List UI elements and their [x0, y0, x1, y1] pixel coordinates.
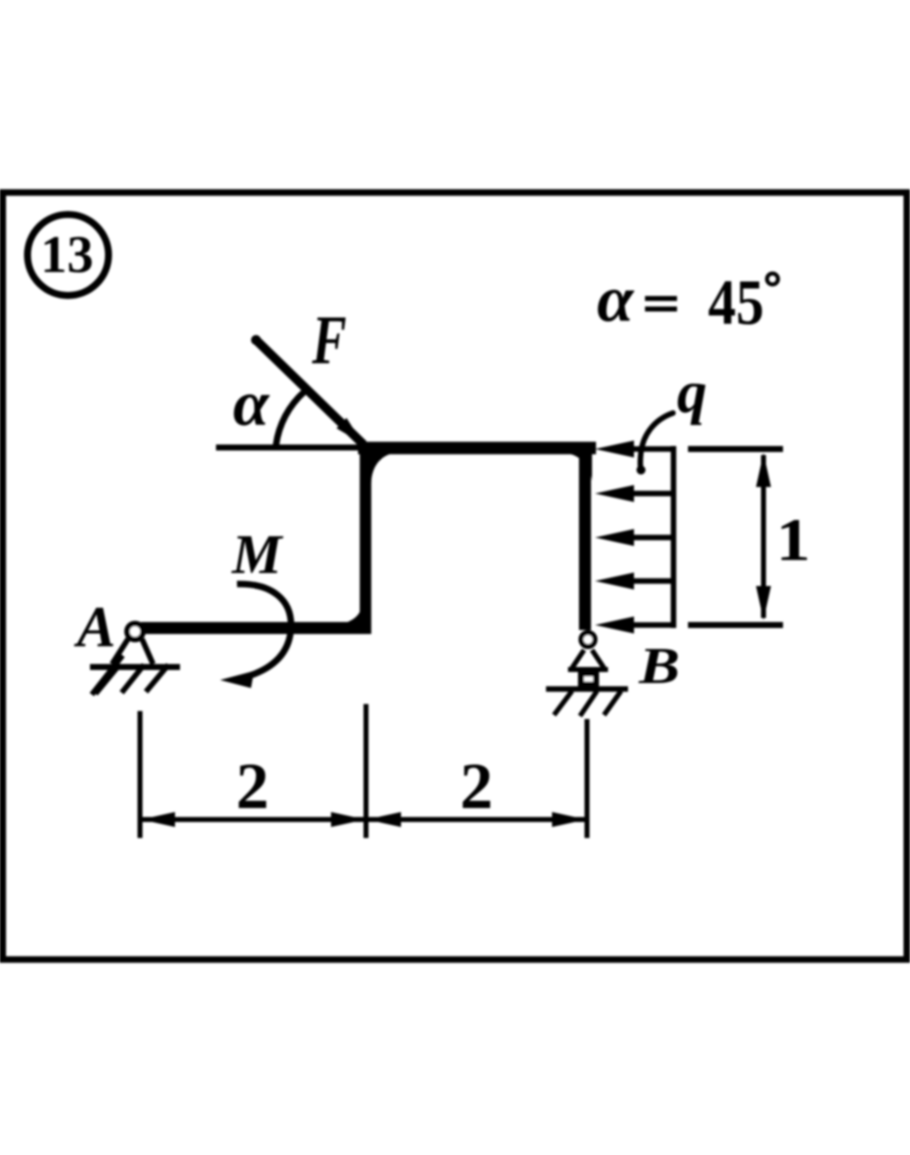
- extension line at middle: [364, 704, 369, 838]
- fillet top-right corner: [562, 452, 592, 481]
- support A pin circle: [127, 624, 143, 640]
- svg-text:13: 13: [41, 226, 94, 284]
- header alpha = 45 deg: [597, 263, 778, 339]
- left vertical beam: [360, 442, 372, 634]
- label alpha (angle): [233, 368, 270, 440]
- svg-text:1: 1: [776, 506, 810, 573]
- support B triangle: [568, 650, 608, 670]
- distributed load right boundary line: [671, 446, 677, 628]
- label F: [311, 302, 346, 379]
- dim arrowhead left: [141, 812, 175, 827]
- top beam: [358, 442, 596, 455]
- svg-text:2: 2: [236, 750, 269, 823]
- dim arrowhead mid-right: [331, 812, 365, 827]
- load arrow 1: [595, 441, 674, 458]
- support A hatching: [92, 655, 169, 694]
- label B: [638, 637, 680, 695]
- problem number circle 13: [28, 215, 109, 296]
- svg-text:2: 2: [460, 750, 493, 823]
- load arrow 3: [595, 529, 674, 546]
- svg-text:q: q: [677, 359, 707, 425]
- fillet bottom corner: [341, 606, 362, 624]
- load arrow 2: [595, 485, 674, 502]
- label 2 right: [460, 750, 493, 823]
- dimension 1 bottom extension line: [688, 622, 783, 628]
- support B roller: [581, 674, 596, 685]
- right vertical member: [579, 443, 591, 630]
- label A: [74, 594, 116, 659]
- label M: [231, 524, 284, 586]
- force F line: [251, 335, 364, 445]
- moment M arc: [237, 584, 291, 679]
- dimension 1 top extension line: [688, 446, 783, 452]
- svg-text:45: 45: [708, 267, 764, 339]
- support B ground line: [546, 686, 628, 692]
- load arrow 4: [595, 573, 674, 590]
- svg-text:B: B: [638, 637, 680, 695]
- svg-text:M: M: [231, 524, 284, 586]
- border frame: [3, 193, 907, 960]
- dimension 1 bottom arrowhead: [756, 586, 771, 620]
- fillet top-left corner: [368, 451, 398, 484]
- label q: [677, 359, 707, 425]
- svg-text:A: A: [74, 594, 116, 659]
- bottom dimension line: [140, 817, 587, 822]
- load arrow 5: [595, 617, 674, 634]
- label 2 left: [236, 750, 269, 823]
- angle arc: [276, 392, 304, 445]
- extension line at A: [138, 711, 143, 838]
- support B hatching: [554, 691, 621, 716]
- svg-text:α: α: [597, 263, 635, 336]
- q leader line: [637, 413, 674, 475]
- support A triangle: [112, 639, 153, 664]
- support A ground line: [90, 664, 180, 670]
- bottom beam: [141, 622, 371, 634]
- dimension 1 top arrowhead: [756, 453, 771, 487]
- dimension 1 line: [761, 455, 766, 618]
- dim arrowhead mid-left: [367, 812, 401, 827]
- top construction line: [216, 445, 362, 451]
- moment M arrowhead: [220, 671, 254, 688]
- dim arrowhead right: [552, 812, 586, 827]
- force F arrowhead: [337, 418, 364, 444]
- support B pin circle: [581, 633, 595, 647]
- svg-text:α: α: [233, 368, 270, 440]
- svg-text:F: F: [311, 302, 346, 379]
- extension line at B: [585, 719, 590, 838]
- label 1: [776, 506, 810, 573]
